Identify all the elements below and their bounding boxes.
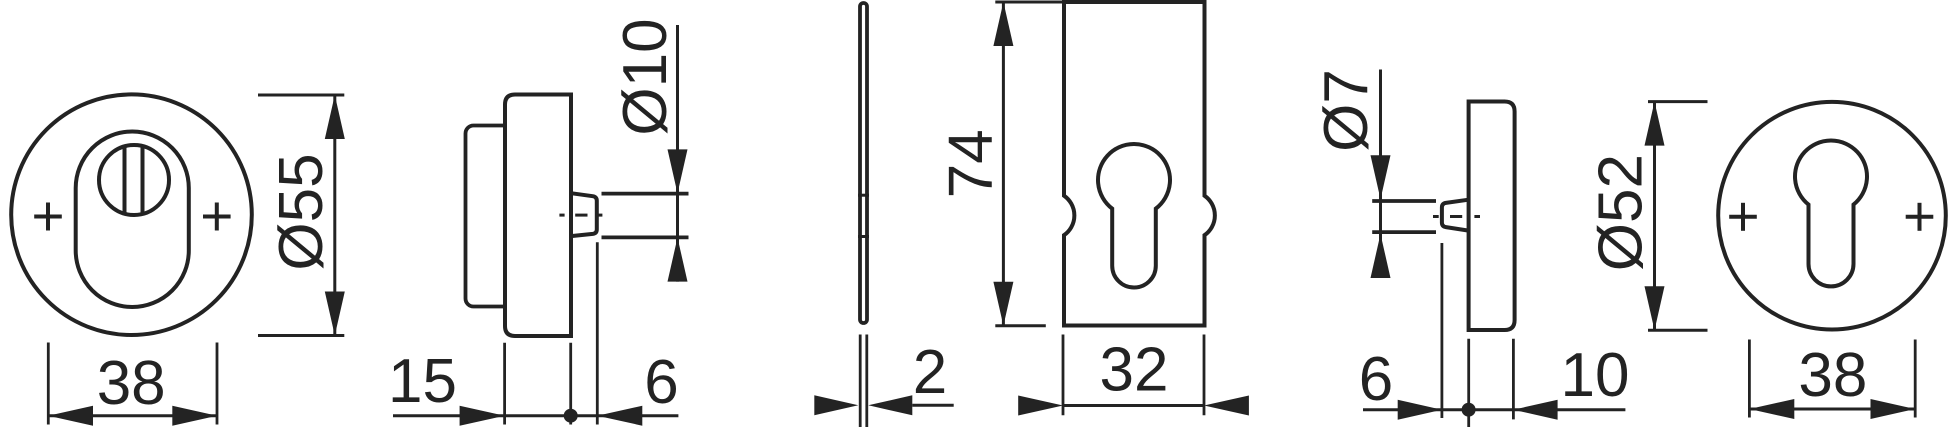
svg-text:32: 32 [1100, 336, 1169, 405]
svg-text:Ø55: Ø55 [267, 153, 336, 270]
svg-text:Ø52: Ø52 [1587, 154, 1656, 271]
svg-text:10: 10 [1561, 341, 1630, 410]
svg-text:6: 6 [1359, 345, 1393, 414]
svg-text:6: 6 [644, 348, 678, 417]
svg-text:Ø7: Ø7 [1312, 69, 1381, 152]
svg-text:38: 38 [97, 349, 166, 418]
svg-text:Ø10: Ø10 [611, 18, 680, 135]
svg-text:74: 74 [937, 129, 1006, 198]
svg-text:2: 2 [913, 338, 947, 407]
svg-text:15: 15 [388, 347, 457, 416]
svg-text:38: 38 [1798, 341, 1867, 410]
